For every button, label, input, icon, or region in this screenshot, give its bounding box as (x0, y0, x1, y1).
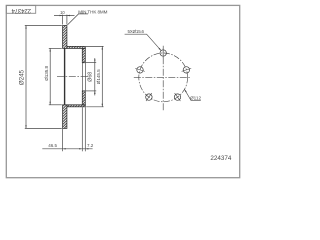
svg-text:Ø68: Ø68 (88, 72, 94, 82)
svg-text:224374: 224374 (210, 155, 232, 162)
svg-text:10: 10 (60, 10, 65, 15)
svg-text:Ø135.8: Ø135.8 (44, 66, 49, 81)
svg-text:Ø245: Ø245 (19, 69, 26, 85)
svg-text:46.5: 46.5 (48, 143, 57, 148)
svg-text:MIN THK 8MM: MIN THK 8MM (78, 10, 107, 15)
svg-text:7.2: 7.2 (87, 143, 94, 148)
svg-text:5XØ15.6: 5XØ15.6 (128, 29, 145, 34)
svg-text:Ø112: Ø112 (190, 96, 202, 101)
svg-text:224374: 224374 (11, 7, 31, 13)
svg-text:Ø145.5: Ø145.5 (96, 69, 101, 84)
